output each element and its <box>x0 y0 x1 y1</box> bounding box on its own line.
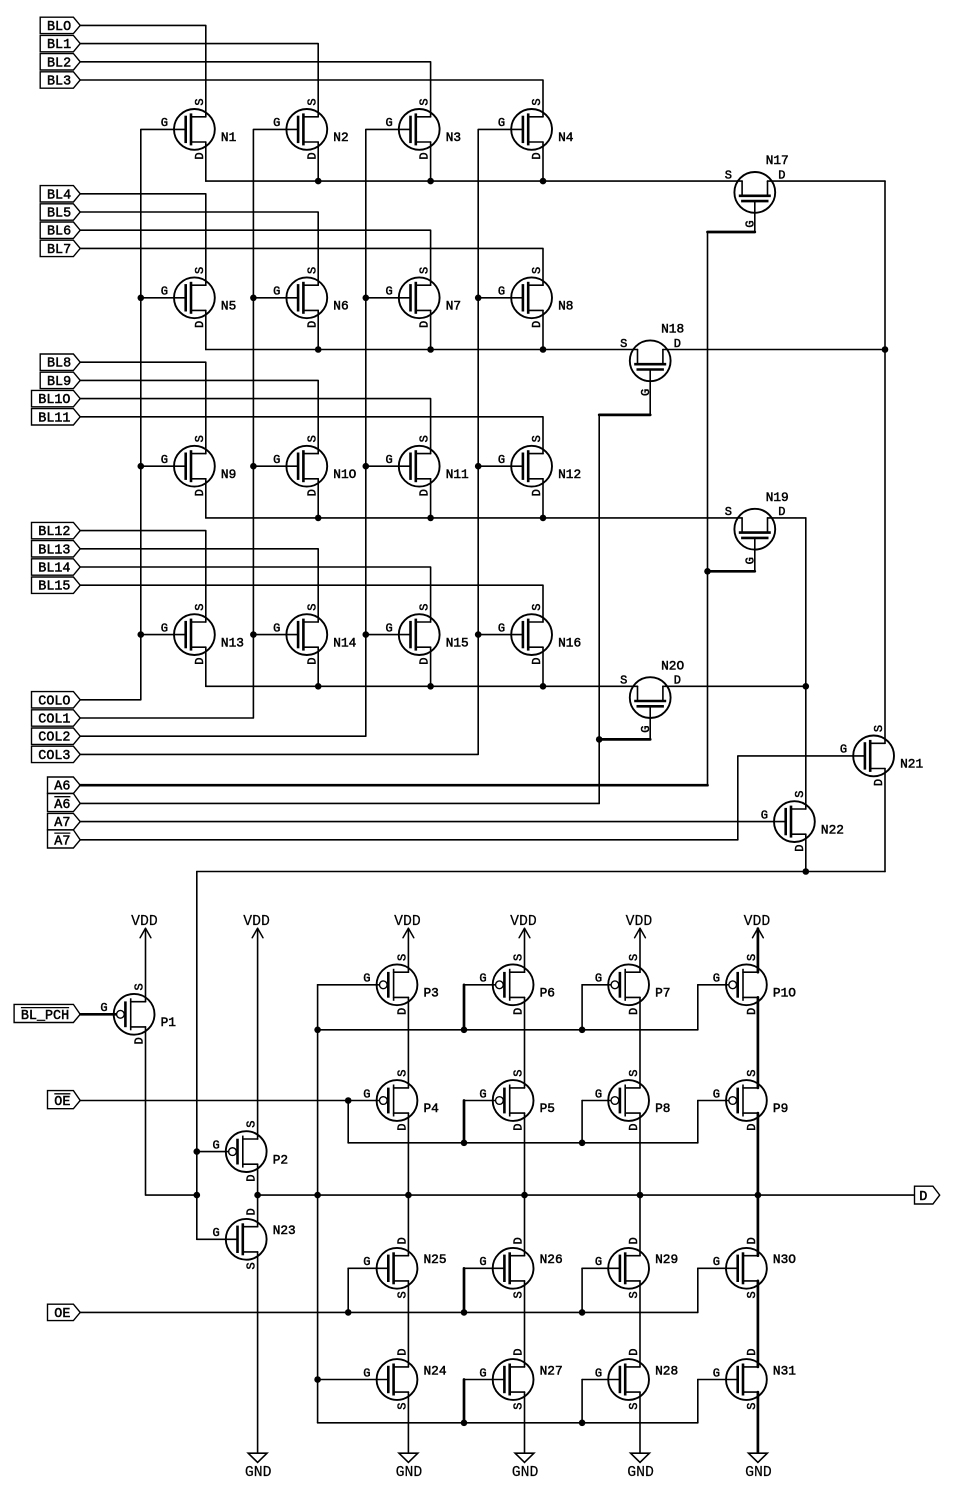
svg-text:P9: P9 <box>773 1101 788 1116</box>
transistor N28 (nmos) <box>595 1348 678 1409</box>
svg-text:D: D <box>512 1123 526 1130</box>
wire N10 drain <box>317 479 319 518</box>
wire BL15 to N16 source <box>80 585 543 622</box>
wire row2 drain bus <box>206 349 638 351</box>
svg-text:P8: P8 <box>655 1101 670 1116</box>
svg-text:S: S <box>512 954 526 961</box>
wire BL12 to N13 source <box>80 531 206 622</box>
power VDD at x=145.5 <box>131 914 158 938</box>
output flag D <box>915 1186 940 1205</box>
svg-text:P5: P5 <box>540 1101 555 1116</box>
svg-text:N13: N13 <box>221 635 244 650</box>
svg-text:G: G <box>595 1087 602 1101</box>
power GND at x=408.4 <box>396 1453 423 1481</box>
svg-text:S: S <box>512 1402 526 1409</box>
svg-text:S: S <box>396 1291 410 1298</box>
wire BL1 to N2 source <box>80 44 318 117</box>
svg-text:D: D <box>396 1008 410 1015</box>
svg-text:D: D <box>745 1237 759 1244</box>
svg-text:S: S <box>305 98 319 105</box>
svg-text:G: G <box>595 1255 602 1269</box>
junction <box>579 1309 586 1316</box>
junction gate col4 row2 <box>475 295 482 302</box>
svg-text:BL3: BL3 <box>47 75 71 90</box>
wire bitline to P2 gate <box>197 1151 229 1153</box>
svg-text:G: G <box>479 972 486 986</box>
wire VDD supply (thick) <box>757 929 760 973</box>
wire D line to N29 drain <box>639 1195 641 1256</box>
svg-text:D: D <box>627 1348 641 1355</box>
power VDD at x=757.9 <box>744 914 771 938</box>
svg-text:G: G <box>273 285 280 299</box>
flag BL3 <box>40 72 80 90</box>
wire P1 drain to bitline <box>146 1027 197 1195</box>
wire mid rail down to N22 source <box>805 518 807 809</box>
transistor N20 (nmos, horizontal) <box>620 658 684 733</box>
power GND at x=524.5 <box>512 1453 539 1481</box>
wire P2 drain to N23 drain <box>257 1164 259 1227</box>
svg-text:S: S <box>305 435 319 442</box>
svg-text:A7: A7 <box>54 834 70 849</box>
svg-text:G: G <box>161 116 168 130</box>
svg-text:D: D <box>396 1348 410 1355</box>
svg-text:S: S <box>745 954 759 961</box>
svg-text:G: G <box>363 1255 370 1269</box>
svg-text:N4: N4 <box>558 130 574 145</box>
wire N17 drain to right rail <box>768 180 886 182</box>
junction P8 drain on D line <box>637 1192 644 1199</box>
flag BL15 <box>32 577 81 595</box>
wire collector bus <box>197 871 885 873</box>
svg-text:COL3: COL3 <box>38 749 70 764</box>
junction row2 bus col3 <box>427 346 434 353</box>
flag BL13 <box>32 541 81 559</box>
transistor P6 (pmos) <box>479 954 555 1015</box>
svg-text:D: D <box>418 489 432 496</box>
wire keeper vertical <box>317 985 319 1423</box>
wire row4 drain bus <box>206 685 638 687</box>
transistor N15 (nmos) <box>385 604 468 665</box>
wire P6 drain to P5 source <box>524 997 526 1088</box>
junction P2 gate on bitline <box>194 1148 201 1155</box>
wire A7bar to N21 gate <box>738 756 865 840</box>
transistor P2 (pmos) <box>212 1121 288 1182</box>
wire gate row2 col4 <box>478 297 523 299</box>
svg-text:VDD: VDD <box>394 914 421 930</box>
svg-text:S: S <box>396 954 410 961</box>
svg-text:G: G <box>363 1366 370 1380</box>
junction gate col3 row3 <box>363 463 370 470</box>
svg-text:D: D <box>193 489 207 496</box>
wire P6 gate stub <box>463 985 466 1030</box>
wire N27 source to GND <box>524 1392 526 1453</box>
wire gate row2 col2 <box>253 297 298 299</box>
wire D line to N26 drain <box>524 1195 526 1256</box>
wire N28 gate <box>582 1379 620 1381</box>
transistor N2 (nmos) <box>273 98 349 159</box>
wire P7 gate stub <box>581 985 583 1030</box>
power VDD at x=524.5 <box>510 914 537 938</box>
junction N22 drain on collector bus <box>803 868 810 875</box>
svg-text:N6: N6 <box>333 299 348 314</box>
wire N30 source to N31 drain <box>757 1281 760 1367</box>
svg-text:S: S <box>418 604 432 611</box>
junction row3 bus col4 <box>540 515 547 522</box>
flag BL12 <box>32 522 81 540</box>
svg-text:BL15: BL15 <box>38 580 70 595</box>
wire D line to N25 drain <box>407 1195 409 1256</box>
svg-text:N17: N17 <box>766 153 789 168</box>
svg-text:S: S <box>745 1291 759 1298</box>
wire N28 source to GND <box>639 1392 641 1453</box>
transistor N18 (nmos, horizontal) <box>620 322 684 397</box>
svg-text:BL7: BL7 <box>47 243 71 258</box>
svg-text:N7: N7 <box>446 299 461 314</box>
wire N8 drain <box>542 310 544 349</box>
svg-text:COLO: COLO <box>38 694 70 709</box>
wire P10 gate <box>698 984 729 986</box>
wire VDD supply <box>639 929 641 973</box>
wire P9 drain to D line <box>757 1113 760 1195</box>
wire N row2 gate bus <box>318 1422 698 1424</box>
wire N19 drain to mid rail <box>768 517 806 519</box>
junction P4 drain on D line <box>405 1192 412 1199</box>
svg-text:G: G <box>385 285 392 299</box>
svg-text:N18: N18 <box>661 322 684 337</box>
transistor N5 (nmos) <box>161 267 237 328</box>
junction row2 bus col2 <box>315 346 322 353</box>
wire BL9 to N10 source <box>80 380 318 453</box>
wire N24 source to GND <box>407 1392 409 1453</box>
power GND at x=257.6 <box>245 1453 272 1481</box>
flag BL14 <box>32 559 81 577</box>
transistor N29 (nmos) <box>595 1237 678 1298</box>
svg-text:D: D <box>919 1190 927 1205</box>
transistor N9 (nmos) <box>161 435 237 496</box>
svg-text:N29: N29 <box>655 1252 678 1267</box>
wire gate row2 col3 <box>366 297 411 299</box>
flag COL0 <box>32 692 81 710</box>
junction N19 gate on A6 vertical <box>704 568 711 575</box>
svg-text:P2: P2 <box>273 1152 288 1167</box>
svg-text:D: D <box>193 658 207 665</box>
transistor N23 (nmos) <box>212 1208 295 1269</box>
flag COL3 <box>32 746 81 764</box>
transistor P8 (pmos) <box>595 1069 671 1130</box>
svg-text:VDD: VDD <box>510 914 537 930</box>
wire P7 gate <box>582 984 611 986</box>
wire P5 gate stub <box>463 1101 466 1143</box>
wire A7bar line <box>80 839 738 841</box>
svg-text:G: G <box>713 1255 720 1269</box>
wire P10 gate stub <box>697 985 699 1030</box>
junction N18 drain on right rail <box>882 346 889 353</box>
transistor N17 (nmos, horizontal) <box>725 153 789 228</box>
wire N3 drain <box>430 142 432 181</box>
transistor N8 (nmos) <box>498 267 574 328</box>
svg-text:D: D <box>245 1175 259 1182</box>
wire N27 gate <box>464 1379 504 1381</box>
junction <box>345 1309 352 1316</box>
power VDD at x=257.6 <box>243 914 270 938</box>
wire N15 drain <box>430 647 432 686</box>
svg-text:S: S <box>530 98 544 105</box>
transistor P5 (pmos) <box>479 1069 555 1130</box>
svg-text:D: D <box>530 489 544 496</box>
wire N11 drain <box>430 479 432 518</box>
svg-text:N9: N9 <box>221 467 236 482</box>
svg-text:D: D <box>674 337 681 351</box>
wire VDD supply <box>407 929 409 973</box>
junction <box>579 1420 586 1427</box>
flag A6 <box>48 777 81 795</box>
wire N25 gate stub <box>347 1268 349 1312</box>
junction N20 drain on mid rail <box>803 683 810 690</box>
wire P9 gate stub <box>697 1101 699 1143</box>
svg-text:S: S <box>305 604 319 611</box>
svg-text:S: S <box>620 674 627 688</box>
junction row4 bus col4 <box>540 683 547 690</box>
junction gate col1 row2 <box>138 295 145 302</box>
svg-text:G: G <box>385 621 392 635</box>
wire P3 drain to P4 source <box>407 997 409 1088</box>
svg-text:P4: P4 <box>424 1101 440 1116</box>
wire BL6 to N7 source <box>80 230 430 285</box>
wire N27 gate stub <box>463 1380 466 1423</box>
svg-text:N1O: N1O <box>333 467 356 482</box>
svg-text:BL8: BL8 <box>47 357 71 372</box>
wire N20 gate drop <box>649 706 651 739</box>
wire P row1 gate bus <box>318 1029 698 1031</box>
wire N9 drain <box>205 479 207 518</box>
wire P3 gate <box>318 984 380 986</box>
svg-text:S: S <box>627 1402 641 1409</box>
svg-text:D: D <box>305 658 319 665</box>
svg-text:D: D <box>245 1208 259 1215</box>
transistor N1 (nmos) <box>161 98 237 159</box>
junction gate col2 row2 <box>250 295 257 302</box>
wire VDD supply <box>524 929 526 973</box>
svg-text:D: D <box>133 1037 147 1044</box>
svg-text:BL14: BL14 <box>38 562 70 577</box>
wire N28 gate stub <box>581 1380 583 1423</box>
junction gate col2 row3 <box>250 463 257 470</box>
wire BL10 to N11 source <box>80 399 430 454</box>
wire N21 drain down <box>884 769 886 872</box>
svg-text:N21: N21 <box>900 757 923 772</box>
flag BL4 <box>40 186 80 204</box>
junction P1 drain on bitline <box>194 1192 201 1199</box>
svg-text:D: D <box>512 1237 526 1244</box>
svg-text:BL13: BL13 <box>38 543 70 558</box>
wire N29 gate stub <box>581 1268 583 1312</box>
svg-text:BL5: BL5 <box>47 207 71 222</box>
wire N31 source to GND <box>757 1392 760 1453</box>
svg-text:G: G <box>840 743 847 757</box>
wire N26 gate <box>464 1267 504 1269</box>
wire P6 gate <box>464 984 496 986</box>
wire gate row4 col2 <box>253 634 298 636</box>
transistor P3 (pmos) <box>363 954 439 1015</box>
wire bitline to N23 gate <box>197 1238 238 1240</box>
flag BL9 <box>40 372 80 390</box>
svg-text:N25: N25 <box>424 1252 447 1267</box>
svg-text:A6: A6 <box>54 780 70 795</box>
wire P5 gate <box>464 1100 496 1102</box>
junction <box>461 1140 468 1147</box>
svg-text:N19: N19 <box>766 490 789 505</box>
wire A6 line <box>80 784 707 787</box>
svg-text:A7: A7 <box>54 816 70 831</box>
junction row4 bus col2 <box>315 683 322 690</box>
wire N19 gate drop <box>754 538 756 571</box>
svg-text:G: G <box>363 972 370 986</box>
wire BL14 to N15 source <box>80 567 430 622</box>
wire OEbar drop to P row2 gate bus <box>347 1101 349 1143</box>
wire BL0 to N1 source <box>80 25 206 116</box>
svg-text:OE: OE <box>54 1307 70 1322</box>
svg-text:N31: N31 <box>773 1363 796 1378</box>
transistor N12 (nmos) <box>498 435 581 496</box>
svg-text:D: D <box>418 658 432 665</box>
svg-text:COL2: COL2 <box>38 731 70 746</box>
junction gate col3 row4 <box>363 631 370 638</box>
svg-text:S: S <box>793 791 807 798</box>
wire N24 gate <box>318 1379 389 1381</box>
svg-text:N26: N26 <box>540 1252 563 1267</box>
svg-text:N8: N8 <box>558 299 573 314</box>
svg-text:N1: N1 <box>221 130 237 145</box>
svg-text:D: D <box>745 1008 759 1015</box>
svg-text:VDD: VDD <box>626 914 653 930</box>
transistor N26 (nmos) <box>479 1237 562 1298</box>
wire COL1 gate column <box>80 129 298 718</box>
svg-text:BL6: BL6 <box>47 225 71 240</box>
svg-text:G: G <box>498 116 505 130</box>
svg-text:G: G <box>273 621 280 635</box>
wire P10 drain to P9 source <box>757 997 760 1088</box>
svg-text:A6: A6 <box>54 798 70 813</box>
svg-text:S: S <box>133 983 147 990</box>
wire P row2 gate bus <box>348 1142 698 1144</box>
svg-text:G: G <box>212 1226 219 1240</box>
svg-text:D: D <box>512 1348 526 1355</box>
svg-text:G: G <box>595 972 602 986</box>
wire BL11 to N12 source <box>80 417 543 454</box>
flag BL2 <box>40 54 80 72</box>
flag BL10 <box>32 390 81 408</box>
wire N20 drain to mid rail <box>663 685 806 687</box>
wire gate row4 col1 <box>141 634 186 636</box>
svg-text:G: G <box>479 1366 486 1380</box>
wire N18 gate jog <box>599 414 650 417</box>
junction gate col4 row4 <box>475 631 482 638</box>
svg-text:S: S <box>872 725 886 732</box>
svg-text:S: S <box>745 1402 759 1409</box>
transistor N19 (nmos, horizontal) <box>725 490 789 565</box>
flag BL6 <box>40 222 80 240</box>
flag BL8 <box>40 354 80 372</box>
junction row1 bus col4 <box>540 178 547 185</box>
svg-text:G: G <box>498 621 505 635</box>
wire N23 source to GND <box>257 1252 259 1453</box>
svg-text:P1: P1 <box>161 1015 177 1030</box>
power VDD at x=408.4 <box>394 914 421 938</box>
flag BL11 <box>32 409 81 427</box>
junction gate col3 row2 <box>363 295 370 302</box>
wire P7 drain to P8 source <box>639 997 641 1088</box>
wire BL5 to N6 source <box>80 212 318 285</box>
transistor N14 (nmos) <box>273 604 357 665</box>
junction <box>461 1027 468 1034</box>
svg-text:D: D <box>530 658 544 665</box>
flag BL7 <box>40 240 80 258</box>
junction <box>461 1420 468 1427</box>
wire gate row3 col1 <box>141 465 186 467</box>
svg-text:P3: P3 <box>424 986 439 1001</box>
junction keeper on D line <box>314 1192 321 1199</box>
junction N20 gate on A6bar vertical <box>596 736 603 743</box>
transistor N7 (nmos) <box>385 267 461 328</box>
svg-text:S: S <box>627 1069 641 1076</box>
svg-text:GND: GND <box>245 1465 272 1481</box>
wire BL8 to N9 source <box>80 362 206 453</box>
flag COL2 <box>32 728 81 746</box>
wire N26 source to N27 drain <box>524 1281 526 1367</box>
svg-text:VDD: VDD <box>131 914 158 930</box>
wire D output line <box>258 1194 915 1196</box>
flag BL1 <box>40 35 80 53</box>
svg-text:N3O: N3O <box>773 1252 796 1267</box>
svg-text:S: S <box>725 505 732 519</box>
wire VDD supply <box>145 929 147 1002</box>
svg-text:BLO: BLO <box>47 20 71 35</box>
svg-text:D: D <box>305 152 319 159</box>
svg-text:BL1: BL1 <box>47 38 71 53</box>
svg-text:N28: N28 <box>655 1363 678 1378</box>
junction P5 drain on D line <box>521 1192 528 1199</box>
wire N30 gate stub <box>697 1268 699 1312</box>
wire gate row3 col2 <box>253 465 298 467</box>
junction row2 bus col4 <box>540 346 547 353</box>
wire N5 drain <box>205 310 207 349</box>
junction <box>579 1140 586 1147</box>
transistor N11 (nmos) <box>385 435 469 496</box>
svg-text:BL9: BL9 <box>47 375 71 390</box>
svg-text:D: D <box>745 1123 759 1130</box>
transistor N24 (nmos) <box>363 1348 447 1409</box>
svg-text:P1O: P1O <box>773 986 796 1001</box>
transistor N4 (nmos) <box>498 98 574 159</box>
svg-text:G: G <box>212 1138 219 1152</box>
junction inverter output on D line <box>254 1192 261 1199</box>
junction OEbar / P4 gate <box>345 1097 352 1104</box>
svg-text:S: S <box>512 1069 526 1076</box>
junction <box>461 1309 468 1316</box>
wire N14 drain <box>317 647 319 686</box>
svg-text:GND: GND <box>745 1465 772 1481</box>
flag A6 <box>48 794 81 813</box>
svg-text:N15: N15 <box>446 635 469 650</box>
wire row3 drain bus <box>206 517 742 519</box>
transistor P4 (pmos) <box>363 1069 439 1130</box>
transistor N6 (nmos) <box>273 267 349 328</box>
svg-text:N3: N3 <box>446 130 461 145</box>
svg-text:D: D <box>793 845 807 852</box>
wire N18 gate drop <box>649 370 651 415</box>
svg-text:BL_PCH: BL_PCH <box>21 1009 69 1024</box>
wire N31 gate stub <box>697 1380 699 1423</box>
